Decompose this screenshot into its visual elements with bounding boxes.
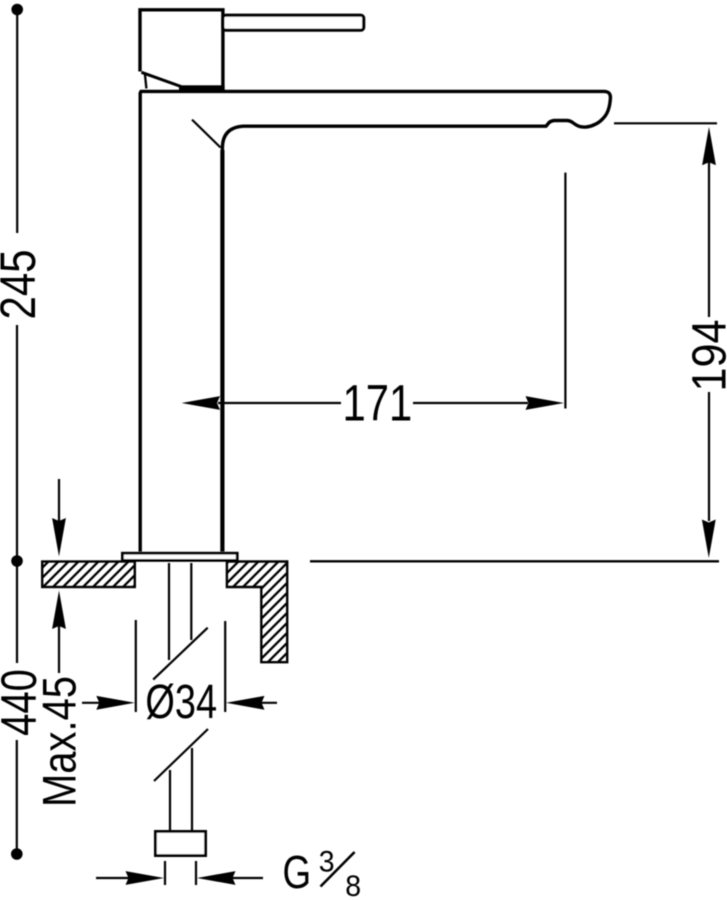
connector nut xyxy=(155,831,205,855)
dimension G3/8 fraction slash xyxy=(321,852,355,887)
dimension Max.45 arrow down xyxy=(52,518,66,557)
connector tail lines xyxy=(165,861,196,885)
dimension Max.45 line upper xyxy=(58,479,60,522)
dimension Max.45 line lower xyxy=(58,626,60,673)
handle chamfer inner line xyxy=(145,74,147,89)
dimension 171 line xyxy=(218,402,528,404)
handle body outline xyxy=(140,10,223,90)
supply pipe lower right xyxy=(191,748,193,831)
dimension G3/8 arrow right xyxy=(197,871,236,885)
svg-text:171: 171 xyxy=(343,375,413,432)
dimension 194 arrow down xyxy=(702,520,716,559)
dimension 245 dot top xyxy=(11,4,23,16)
lever arm xyxy=(223,15,364,30)
dimension 171 arrow right xyxy=(526,396,565,410)
dimension 245 line xyxy=(16,10,19,855)
dimension G3/8 arrow left xyxy=(126,871,165,885)
supply pipe upper left xyxy=(168,563,170,660)
svg-text:8: 8 xyxy=(345,870,361,900)
dimension 194 line xyxy=(708,161,710,521)
base plate xyxy=(122,553,237,560)
dimension O34 arrow right xyxy=(226,696,265,710)
dimension O34 extension lines xyxy=(136,620,225,712)
spout and body outline xyxy=(140,91,610,551)
svg-text:Ø34: Ø34 xyxy=(145,676,217,729)
column inner edge emphasis xyxy=(220,150,224,552)
pipe break line upper xyxy=(153,628,208,680)
spout inner corner tick xyxy=(192,120,221,148)
dimension 194 extension line top xyxy=(614,122,717,124)
svg-text:G: G xyxy=(283,846,312,898)
dimension O34 tails xyxy=(82,702,277,704)
dimension 194 arrow up xyxy=(702,127,716,166)
countertop left section xyxy=(42,562,135,588)
svg-text:Max.45: Max.45 xyxy=(35,676,87,807)
pipe break line lower xyxy=(154,729,208,781)
handle base bar xyxy=(179,85,225,90)
handle chamfer xyxy=(141,72,181,86)
countertop surface extension line xyxy=(310,560,719,562)
dimension O34 arrow left xyxy=(96,696,135,710)
supply pipe lower left xyxy=(169,770,171,831)
svg-text:194: 194 xyxy=(682,319,727,391)
countertop right section xyxy=(227,562,287,663)
dimension 245/440 dot middle xyxy=(11,555,23,567)
dimension Max.45 arrow up xyxy=(52,591,66,630)
dimension G3/8 tails xyxy=(96,877,263,879)
supply pipe upper right xyxy=(190,563,192,640)
dimension 171 arrow left xyxy=(182,396,221,410)
dimension 171 extension line xyxy=(564,173,566,409)
dimension 440 dot bottom xyxy=(11,848,23,860)
svg-text:245: 245 xyxy=(0,249,46,319)
